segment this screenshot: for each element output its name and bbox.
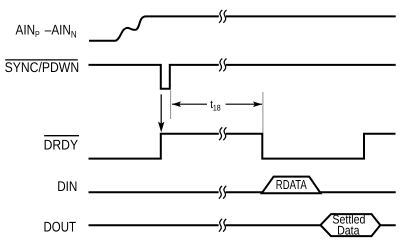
svg-text:SYNC/PDWN: SYNC/PDWN — [5, 59, 80, 75]
svg-text:DRDY: DRDY — [44, 137, 79, 153]
svg-text:RDATA: RDATA — [276, 177, 307, 192]
svg-text:DOUT: DOUT — [44, 218, 77, 234]
svg-text:Data: Data — [337, 223, 359, 237]
svg-text:DIN: DIN — [57, 178, 77, 194]
